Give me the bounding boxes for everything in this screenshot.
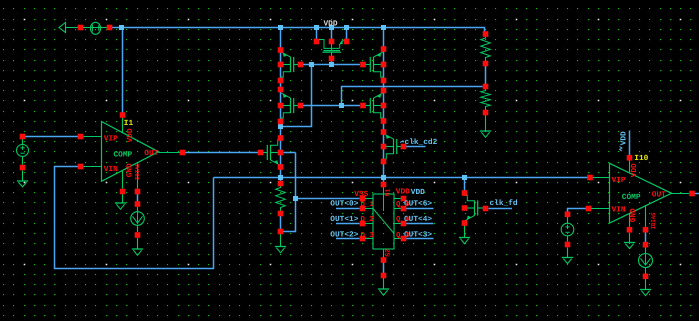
svg-text:I1: I1 bbox=[124, 119, 134, 128]
svg-text:D_3: D_3 bbox=[361, 232, 375, 240]
svg-text:VDD: VDD bbox=[126, 128, 135, 142]
svg-text:VIN: VIN bbox=[612, 205, 626, 214]
svg-text:IBIAS: IBIAS bbox=[650, 212, 657, 229]
svg-text:VDD: VDD bbox=[411, 188, 425, 197]
svg-text:S2: S2 bbox=[385, 249, 392, 257]
svg-text:VDD: VDD bbox=[324, 20, 338, 29]
svg-text:Q_6: Q_6 bbox=[396, 201, 410, 209]
svg-text:D_2: D_2 bbox=[361, 216, 374, 224]
svg-text:COMP: COMP bbox=[114, 150, 133, 159]
svg-text:OUT: OUT bbox=[652, 190, 666, 199]
svg-text:VDD: VDD bbox=[396, 188, 410, 197]
svg-text:VDD: VDD bbox=[620, 131, 629, 145]
svg-text:VIN: VIN bbox=[104, 165, 118, 174]
svg-text:I10: I10 bbox=[634, 154, 648, 163]
svg-text:OUT<1>: OUT<1> bbox=[330, 215, 358, 224]
svg-text:D_1: D_1 bbox=[361, 201, 375, 209]
svg-text:Q_4: Q_4 bbox=[396, 216, 410, 224]
svg-text:IBIAS: IBIAS bbox=[134, 163, 141, 180]
svg-text:VDD: VDD bbox=[630, 163, 639, 177]
svg-text:Q_3: Q_3 bbox=[396, 232, 410, 240]
svg-text:VSS: VSS bbox=[354, 190, 368, 199]
svg-text:M1: M1 bbox=[384, 189, 391, 197]
svg-text:COMP: COMP bbox=[622, 193, 641, 202]
svg-text:OUT<2>: OUT<2> bbox=[330, 231, 358, 240]
svg-text:clk_cd2: clk_cd2 bbox=[405, 138, 438, 147]
svg-text:VIP: VIP bbox=[612, 176, 626, 185]
svg-text:GND: GND bbox=[629, 208, 638, 222]
svg-text:clk_fd: clk_fd bbox=[490, 199, 518, 208]
svg-text:VIP: VIP bbox=[104, 134, 118, 143]
svg-text:OUT<0>: OUT<0> bbox=[330, 199, 358, 208]
svg-text:OUT: OUT bbox=[144, 149, 158, 158]
